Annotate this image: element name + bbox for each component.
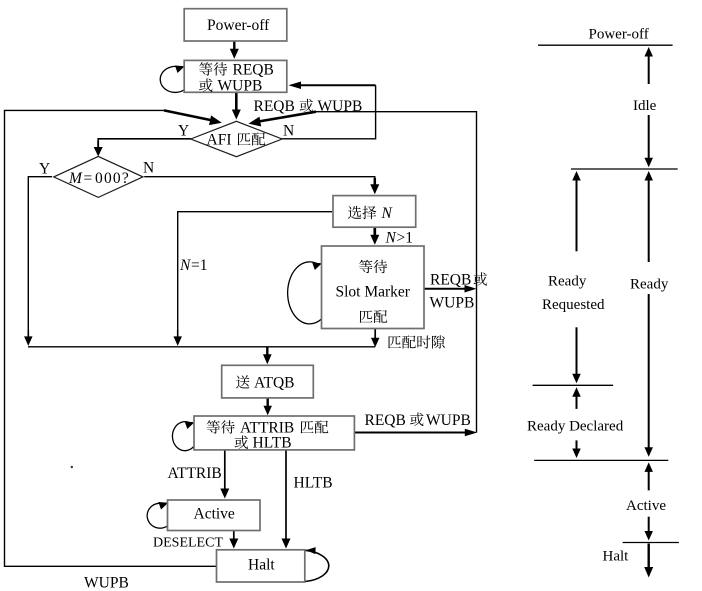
label WUPB xyxy=(84,575,129,591)
state arrow ReadyReq down xyxy=(572,327,581,383)
arrow ATTRIB branch to Active xyxy=(220,450,229,499)
label match slot xyxy=(388,335,445,348)
svg-text:M: M xyxy=(68,170,83,187)
svg-text:ATTRIB: ATTRIB xyxy=(168,465,222,482)
svg-text:WUPB: WUPB xyxy=(218,78,263,95)
svg-text:000?: 000? xyxy=(95,170,130,187)
svg-text:WUPB: WUPB xyxy=(84,575,129,591)
arrow select-N to slot-marker box xyxy=(370,227,379,245)
box send ATQB xyxy=(222,365,314,398)
label REQB or WUPB top xyxy=(254,98,363,115)
state line 5 xyxy=(623,542,679,544)
wire merge junction horizontal xyxy=(28,346,375,348)
svg-text:N: N xyxy=(283,123,294,140)
text slot line3 xyxy=(360,310,388,323)
arrow HLTB branch to Halt xyxy=(282,450,291,549)
box Halt xyxy=(217,550,305,582)
label WUPB (slot) xyxy=(430,295,475,312)
arrow send-ATQB to wait-ATTRIB xyxy=(263,398,272,415)
state arrow Idle up xyxy=(644,47,653,84)
svg-text:Active: Active xyxy=(194,506,235,523)
diamond M=000 xyxy=(54,156,143,197)
label state Idle xyxy=(633,98,657,114)
svg-text:Ready: Ready xyxy=(630,277,669,293)
label state Halt xyxy=(603,549,630,565)
text slot line2 xyxy=(336,284,411,301)
self-loop slot-marker box xyxy=(288,262,322,324)
wire junction to send-ATQB xyxy=(263,347,272,365)
svg-text:AFI: AFI xyxy=(207,132,232,149)
label state Ready (right) xyxy=(630,277,669,293)
label N>1 xyxy=(385,230,414,247)
state line 4 xyxy=(534,459,668,461)
label N M xyxy=(143,160,154,177)
text wait-REQB line1 xyxy=(199,62,274,79)
svg-text:Y: Y xyxy=(178,123,189,140)
state line 3 xyxy=(533,384,614,386)
label state Ready (req) xyxy=(548,274,587,290)
label DESELECT xyxy=(153,536,223,551)
text AFI match xyxy=(207,132,266,149)
svg-text:REQB: REQB xyxy=(365,412,406,429)
box Active xyxy=(168,500,261,531)
text slot line1 xyxy=(359,260,387,273)
label ATTRIB xyxy=(168,465,222,482)
svg-text:Ready: Ready xyxy=(548,274,587,290)
text send ATQB xyxy=(236,375,294,392)
label Y AFI xyxy=(178,123,189,140)
state arrow Active up xyxy=(644,462,653,490)
arrow Active DESELECT to Halt xyxy=(229,531,238,549)
svg-text:Requested: Requested xyxy=(542,297,605,313)
wire wait-ATTRIB REQB/WUPB to return line xyxy=(355,429,478,437)
stray dot xyxy=(71,466,73,468)
svg-text:Ready Declared: Ready Declared xyxy=(527,419,624,435)
svg-text:WUPB: WUPB xyxy=(430,295,475,312)
svg-text:WUPB: WUPB xyxy=(318,98,363,115)
box wait slot marker xyxy=(322,246,425,329)
svg-text:REQB: REQB xyxy=(430,272,471,289)
box wait REQB/WUPB xyxy=(184,60,287,92)
svg-text:Idle: Idle xyxy=(633,98,657,114)
svg-text:Power-off: Power-off xyxy=(589,27,649,43)
label Y M xyxy=(39,161,50,178)
text Halt xyxy=(248,557,275,574)
text M=000 xyxy=(68,170,130,187)
box Power-off xyxy=(184,9,287,41)
svg-text:Active: Active xyxy=(626,498,666,514)
wire slot-marker exit down to junction xyxy=(371,329,380,348)
state line 2 xyxy=(571,168,678,170)
text select N xyxy=(348,205,393,222)
label state Requested xyxy=(542,297,605,313)
label REQB or (slot) xyxy=(430,272,487,289)
label state Ready Declared xyxy=(527,419,624,435)
state arrow Active down xyxy=(644,517,653,541)
self-loop Active box xyxy=(147,502,168,528)
svg-text:N: N xyxy=(381,205,394,222)
label REQB or WUPB (attrib) xyxy=(365,412,471,429)
svg-text:HLTB: HLTB xyxy=(253,435,292,452)
self-loop wait-ATTRIB box xyxy=(172,421,194,450)
label state Active xyxy=(626,498,666,514)
box select N xyxy=(333,196,416,228)
svg-text:=1: =1 xyxy=(191,257,208,274)
arrow power-off to wait-REQB xyxy=(230,41,239,59)
svg-text:Power-off: Power-off xyxy=(207,17,270,34)
svg-text:REQB: REQB xyxy=(254,98,295,115)
svg-text:Halt: Halt xyxy=(603,549,630,565)
label state Power-off xyxy=(589,27,649,43)
diamond AFI match xyxy=(191,121,282,156)
wire M Y branch down xyxy=(24,177,52,346)
state arrow Ready down xyxy=(644,294,653,457)
label N AFI xyxy=(283,123,294,140)
state arrow Ready up xyxy=(644,171,653,262)
label N=1 xyxy=(179,257,208,274)
svg-text:Slot Marker: Slot Marker xyxy=(336,284,411,301)
wire return REQB/WUPB right vertical to AFI xyxy=(249,112,477,433)
svg-text:N: N xyxy=(143,160,154,177)
wire AFI Y branch to M diamond xyxy=(94,139,191,157)
state line 1 xyxy=(538,44,673,46)
wire N=1 branch from select-N xyxy=(173,212,332,346)
wire slot-marker REQB/WUPB to return line xyxy=(424,285,477,293)
wire AFI N branch to wait-REQB box xyxy=(281,82,376,139)
svg-text:DESELECT: DESELECT xyxy=(153,536,223,551)
svg-text:ATQB: ATQB xyxy=(254,375,294,392)
label HLTB xyxy=(294,475,333,492)
svg-text:Halt: Halt xyxy=(248,557,275,574)
state arrow Halt down xyxy=(644,544,653,578)
text Active xyxy=(194,506,235,523)
arrow wait-REQB to AFI diamond xyxy=(232,92,241,119)
wire big left loop Halt-WUPB to AFI xyxy=(5,110,222,566)
text Power-off xyxy=(207,17,270,34)
svg-text:>1: >1 xyxy=(397,230,414,247)
svg-text:HLTB: HLTB xyxy=(294,475,333,492)
svg-text:=: = xyxy=(84,170,93,187)
self-loop wait-REQB box xyxy=(160,65,184,92)
wire M N branch to select-N box xyxy=(144,177,379,195)
state arrow ReadyReq up xyxy=(572,171,581,251)
self-loop Halt box xyxy=(305,547,329,581)
text wait-ATTRIB line2 xyxy=(235,435,292,452)
svg-text:Y: Y xyxy=(39,161,50,178)
state arrow Idle down xyxy=(644,115,653,167)
svg-text:WUPB: WUPB xyxy=(426,412,471,429)
state arrow ReadyDecl up xyxy=(572,387,581,409)
state arrow ReadyDecl down xyxy=(572,440,581,458)
text wait-REQB line2 xyxy=(199,78,262,95)
text wait-ATTRIB line1 xyxy=(207,420,329,437)
svg-text:REQB: REQB xyxy=(233,62,274,79)
box wait ATTRIB xyxy=(194,416,354,450)
